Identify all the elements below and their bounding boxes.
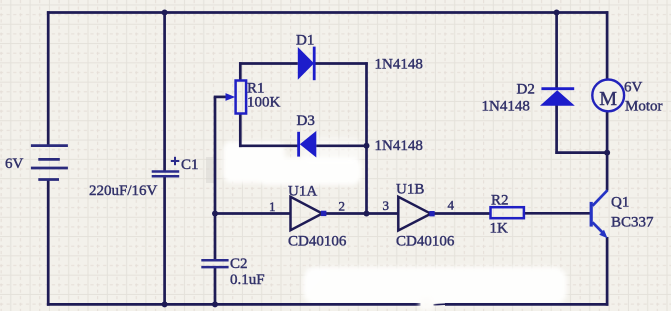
svg-text:BC337: BC337 [611, 215, 654, 231]
white patch bottom [303, 267, 567, 305]
wire C1 top lead [163, 11, 166, 171]
wire D2 top lead [555, 11, 558, 88]
svg-text:U1A: U1A [288, 184, 317, 200]
wire battery bottom lead [47, 180, 50, 306]
svg-text:C1: C1 [181, 157, 199, 173]
svg-text:D2: D2 [517, 82, 535, 98]
battery BT 6V [31, 146, 68, 180]
resistor R2 [491, 207, 524, 218]
wire R1 bottom lead [239, 114, 242, 148]
svg-text:1N4148: 1N4148 [482, 99, 530, 115]
motor M1 [592, 80, 624, 112]
junction C2 bottom [212, 301, 218, 307]
inverter U1A [291, 197, 327, 230]
diode D1 [298, 47, 314, 81]
svg-text:CD40106: CD40106 [288, 234, 347, 250]
svg-text:3: 3 [383, 198, 390, 213]
junction motor bottom [604, 150, 610, 156]
svg-text:CD40106: CD40106 [396, 234, 455, 250]
wire bottom rail thin stub [434, 303, 448, 306]
wire R1 top lead [239, 62, 242, 80]
transistor Q1 [590, 190, 608, 238]
wire D1 branch right [314, 62, 368, 65]
svg-text:1N4148: 1N4148 [375, 57, 423, 73]
wiper arrowhead [226, 93, 236, 101]
wire bottom rail right segment [445, 303, 608, 306]
wire D2 node horizontal [555, 151, 608, 154]
white patch over bottom rail gap [419, 297, 434, 311]
wire left rail [47, 11, 50, 145]
svg-text:1N4148: 1N4148 [375, 138, 423, 154]
svg-text:Motor: Motor [625, 99, 663, 115]
wire motor bottom lead [606, 111, 609, 153]
svg-text:220uF/16V: 220uF/16V [89, 183, 158, 199]
junction D2 top [554, 10, 560, 16]
junction C1 top [162, 10, 168, 16]
svg-text:1K: 1K [490, 221, 509, 237]
svg-text:M: M [599, 88, 617, 110]
wire C2 bottom lead [214, 267, 217, 306]
wire C1 bottom lead [163, 176, 166, 306]
wire top rail [47, 11, 609, 14]
svg-text:Q1: Q1 [611, 195, 629, 211]
capacitor C2 [201, 260, 228, 267]
junction U1A input [212, 211, 218, 217]
capacitor C1 [152, 157, 180, 176]
inverter U1B [398, 197, 434, 231]
svg-text:2: 2 [339, 199, 346, 214]
svg-text:6V: 6V [624, 80, 643, 96]
svg-text:R2: R2 [491, 193, 509, 209]
wire feedback vertical [365, 62, 368, 213]
diode D3 [299, 131, 317, 158]
svg-text:6V: 6V [5, 156, 24, 172]
wire D3 branch right [316, 144, 368, 147]
wire U1A input [214, 212, 291, 215]
potentiometer R1 [236, 81, 247, 114]
white patch center [223, 138, 362, 185]
grey smudge left of patch [206, 157, 215, 183]
svg-text:C2: C2 [230, 256, 248, 272]
wire D2 bottom lead [555, 106, 558, 154]
svg-text:1: 1 [269, 199, 276, 214]
svg-text:4: 4 [448, 198, 455, 213]
junction U1A output [364, 211, 370, 217]
wire Q1 emitter vertical [606, 237, 609, 306]
svg-text:100K: 100K [247, 95, 281, 111]
diode D2 [540, 89, 575, 106]
wire wiper horizontal [214, 96, 228, 99]
wire R2 to Q1 base [524, 212, 590, 215]
wire D1 branch left [239, 62, 298, 65]
svg-text:D3: D3 [297, 113, 315, 129]
wire Q1 collector vertical [606, 153, 609, 191]
wire U1B output [434, 212, 491, 215]
svg-text:D1: D1 [296, 33, 314, 49]
wire U1A output to U1B [325, 212, 399, 215]
wire motor top lead [606, 11, 609, 79]
wire bottom rail left segment [47, 303, 421, 306]
svg-text:0.1uF: 0.1uF [230, 272, 265, 288]
wire D3 branch left [239, 144, 299, 147]
junction D3 right [364, 143, 370, 149]
svg-text:U1B: U1B [396, 182, 424, 198]
wire C2/wiper vertical [214, 97, 217, 260]
junction C1 bottom [162, 301, 168, 307]
